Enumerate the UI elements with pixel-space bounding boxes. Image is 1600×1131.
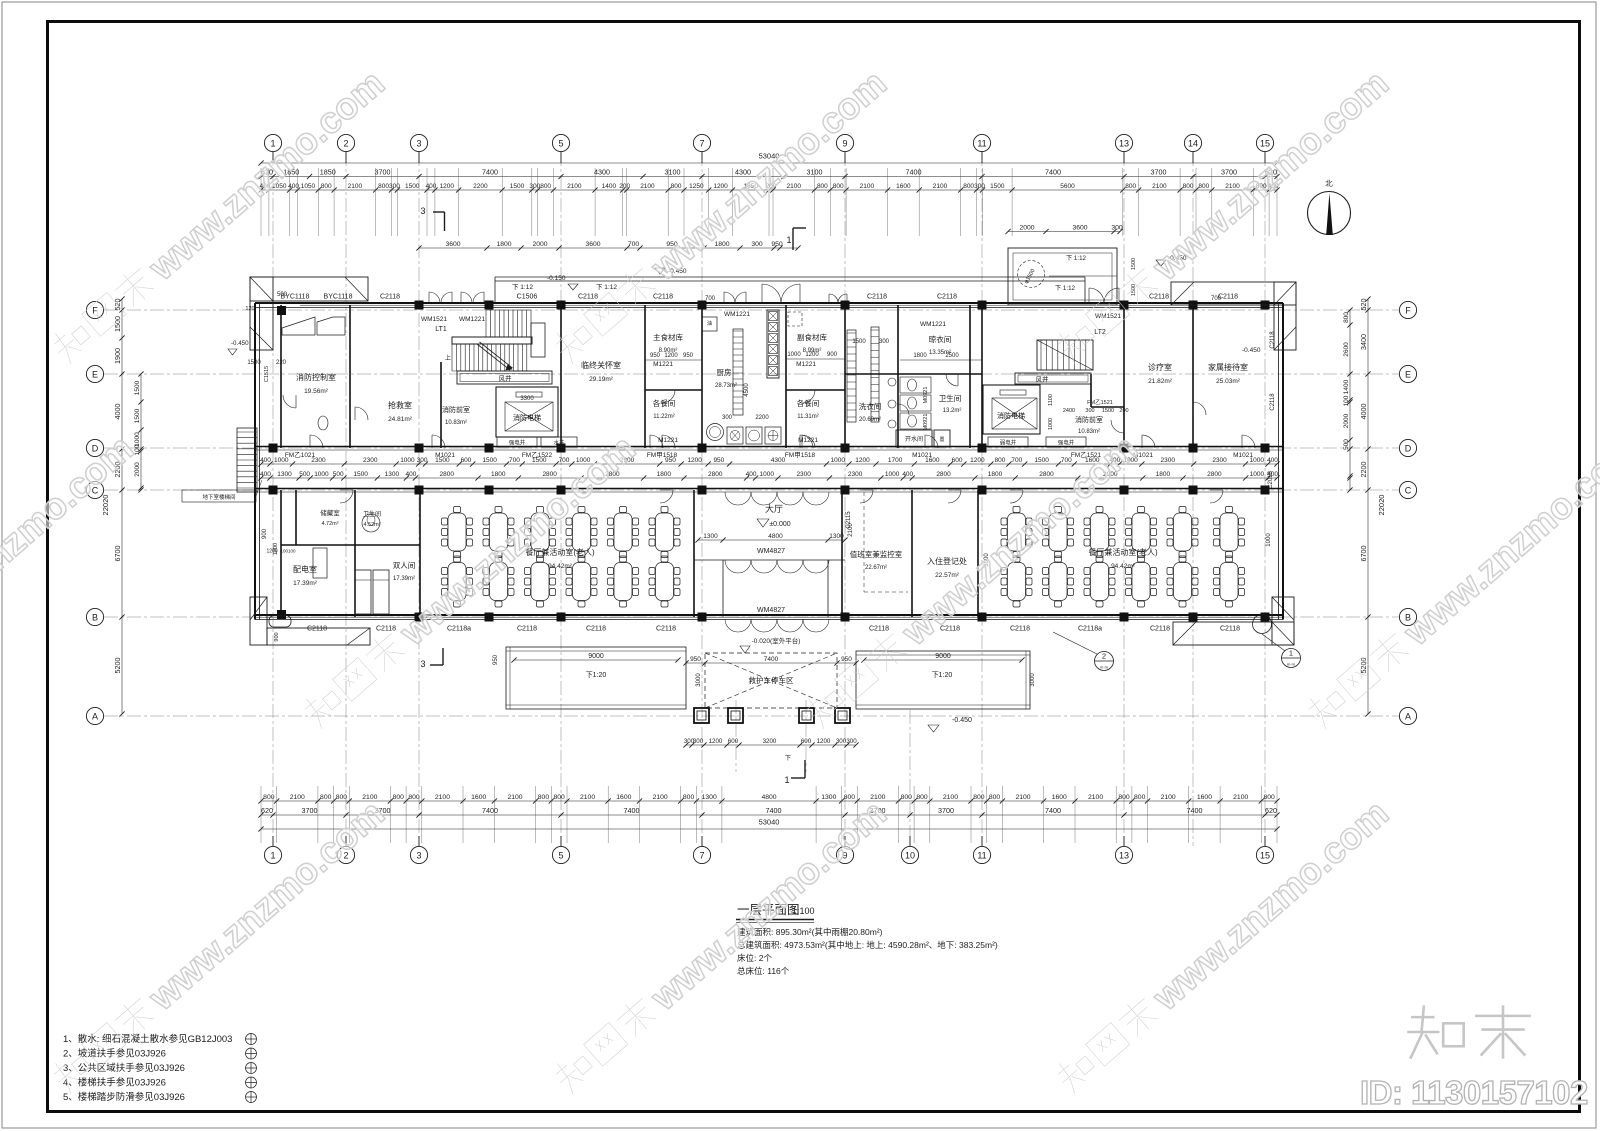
dimension chain terrace right <box>861 653 1024 662</box>
svg-text:1100: 1100 <box>1048 394 1054 406</box>
svg-text:1700: 1700 <box>888 457 903 464</box>
svg-text:11: 11 <box>977 139 986 149</box>
svg-text:副食材库: 副食材库 <box>797 332 827 342</box>
svg-text:400: 400 <box>902 471 913 478</box>
svg-text:2200: 2200 <box>1359 462 1368 478</box>
svg-text:M1221: M1221 <box>798 437 818 444</box>
svg-text:800: 800 <box>994 457 1005 464</box>
svg-text:FM乙1021: FM乙1021 <box>285 451 316 459</box>
svg-text:5: 5 <box>558 139 563 149</box>
svg-text:800: 800 <box>916 794 928 801</box>
dining room 1 tables <box>442 507 473 558</box>
svg-text:800: 800 <box>540 183 551 190</box>
svg-text:11.22m²: 11.22m² <box>653 414 675 420</box>
svg-text:消防前室: 消防前室 <box>442 405 470 414</box>
dimension chain top detail dims <box>258 183 1279 192</box>
small sink top-left room <box>318 416 328 430</box>
svg-text:3700: 3700 <box>375 168 391 177</box>
svg-text:950: 950 <box>841 656 852 663</box>
stair LT1 <box>452 310 545 371</box>
svg-text:4800: 4800 <box>761 794 776 801</box>
svg-text:C2118: C2118 <box>867 294 887 301</box>
svg-text:M1221: M1221 <box>796 361 816 368</box>
svg-text:1600: 1600 <box>616 794 631 801</box>
svg-text:2100: 2100 <box>1015 794 1030 801</box>
fire elevator right <box>983 385 1040 434</box>
svg-text:700: 700 <box>509 457 520 464</box>
svg-text:53040: 53040 <box>759 818 780 827</box>
svg-text:4000: 4000 <box>113 404 122 420</box>
svg-text:2300: 2300 <box>1212 457 1227 464</box>
svg-text:M1021: M1021 <box>1233 452 1253 459</box>
svg-text:3: 3 <box>416 851 421 861</box>
corner eave bottom-left <box>250 597 370 645</box>
svg-text:C2118: C2118 <box>937 294 957 301</box>
svg-text:C2118: C2118 <box>517 626 537 633</box>
svg-text:2100: 2100 <box>640 183 655 190</box>
porch column wrap bottom-left <box>269 616 291 628</box>
诊疗室 door <box>1111 420 1124 433</box>
svg-text:1500: 1500 <box>134 380 141 395</box>
svg-text:FM乙1521: FM乙1521 <box>1087 399 1113 406</box>
svg-text:C2118: C2118 <box>1149 294 1169 301</box>
svg-text:FM甲1518: FM甲1518 <box>647 451 678 459</box>
svg-text:1800: 1800 <box>913 353 927 359</box>
svg-text:WM1221: WM1221 <box>920 321 946 328</box>
svg-text:2、坡道扶手参见03J926: 2、坡道扶手参见03J926 <box>63 1048 166 1060</box>
interior partition walls: top room band <box>281 305 1193 448</box>
svg-text:-0.150: -0.150 <box>547 275 566 282</box>
svg-text:m-m: m-m <box>1287 662 1296 667</box>
svg-text:1900: 1900 <box>113 348 122 364</box>
svg-text:300: 300 <box>836 738 847 745</box>
svg-text:2000: 2000 <box>1019 225 1034 232</box>
svg-text:-0.450: -0.450 <box>1242 347 1261 354</box>
svg-text:29.19m²: 29.19m² <box>589 376 614 383</box>
svg-text:600: 600 <box>801 738 812 745</box>
svg-text:1: 1 <box>784 775 789 785</box>
svg-text:3700: 3700 <box>938 806 954 815</box>
svg-text:1200: 1200 <box>805 352 819 358</box>
svg-text:A: A <box>92 712 98 722</box>
svg-text:300: 300 <box>751 241 763 248</box>
svg-text:C2118: C2118 <box>1220 626 1240 633</box>
svg-text:下: 下 <box>785 755 791 762</box>
svg-text:900: 900 <box>262 528 268 539</box>
svg-text:2100: 2100 <box>860 183 875 190</box>
svg-text:临终关怀室: 临终关怀室 <box>581 360 621 370</box>
svg-text:1300: 1300 <box>702 794 717 801</box>
svg-text:4000: 4000 <box>1359 404 1368 420</box>
svg-text:1600: 1600 <box>471 794 486 801</box>
svg-text:10.83m²: 10.83m² <box>445 420 467 426</box>
svg-text:C1515: C1515 <box>264 366 270 382</box>
svg-text:15: 15 <box>1260 851 1270 861</box>
left terrace <box>506 647 686 709</box>
corner eave top-left <box>250 277 368 350</box>
svg-text:700: 700 <box>705 296 716 302</box>
svg-text:强电井: 强电井 <box>1058 439 1075 447</box>
svg-text:5600: 5600 <box>1060 183 1075 190</box>
fire elevator left <box>496 387 558 437</box>
svg-text:C2115: C2115 <box>846 511 852 529</box>
svg-text:各餐间: 各餐间 <box>797 398 820 408</box>
svg-text:1200: 1200 <box>970 457 985 464</box>
dimension chain bottom detail <box>258 794 1279 803</box>
canopy column axis stubs <box>735 700 737 772</box>
svg-text:1000: 1000 <box>787 352 801 358</box>
dining room 2 tables <box>1001 507 1032 558</box>
svg-text:6700: 6700 <box>1359 546 1368 562</box>
dimension chain corridor row2 <box>258 471 1279 480</box>
svg-text:开水间: 开水间 <box>905 435 923 443</box>
svg-text:3600: 3600 <box>445 241 460 248</box>
top dim extension lines <box>261 168 1277 236</box>
svg-text:M1221: M1221 <box>653 361 673 368</box>
svg-text:1250: 1250 <box>689 183 704 190</box>
svg-text:2100: 2100 <box>567 183 582 190</box>
svg-text:800: 800 <box>393 794 405 801</box>
svg-text:1600: 1600 <box>896 183 911 190</box>
svg-text:950: 950 <box>771 241 783 248</box>
svg-text:1: 1 <box>1289 649 1293 658</box>
svg-text:诊疗室: 诊疗室 <box>1148 362 1172 372</box>
svg-text:6700: 6700 <box>113 546 122 562</box>
svg-text:2300: 2300 <box>363 457 378 464</box>
svg-text:C2118: C2118 <box>380 294 400 301</box>
svg-text:15: 15 <box>1260 139 1270 149</box>
svg-text:22020: 22020 <box>1377 495 1386 516</box>
room doors inside kitchen block <box>662 390 675 403</box>
svg-text:19.56m²: 19.56m² <box>304 388 329 395</box>
svg-text:22.67m²: 22.67m² <box>865 565 887 571</box>
wardrobe strip <box>313 548 327 578</box>
dimension chain ramp top right <box>1005 225 1122 234</box>
svg-text:2: 2 <box>1102 652 1106 661</box>
svg-text:FM甲1518: FM甲1518 <box>785 451 816 459</box>
svg-text:400: 400 <box>1267 457 1278 464</box>
svg-text:1600: 1600 <box>1197 794 1212 801</box>
svg-text:4500: 4500 <box>744 383 750 397</box>
svg-text:1: 1 <box>786 235 791 245</box>
svg-text:5、楼梯踏步防滑参见03J926: 5、楼梯踏步防滑参见03J926 <box>63 1091 185 1103</box>
dimension chain top total <box>258 160 1279 165</box>
svg-text:950: 950 <box>493 654 499 665</box>
svg-text:800: 800 <box>1118 794 1130 801</box>
svg-text:620: 620 <box>1265 806 1277 815</box>
svg-text:C2118: C2118 <box>1270 331 1276 349</box>
lobby door arcs row 2 (entrance) <box>725 619 829 632</box>
svg-text:2800: 2800 <box>708 471 723 478</box>
canopy columns <box>694 708 850 723</box>
svg-text:2100: 2100 <box>507 794 522 801</box>
svg-text:17.39m²: 17.39m² <box>393 576 415 582</box>
svg-text:2100: 2100 <box>580 794 595 801</box>
svg-text:200: 200 <box>619 183 630 190</box>
svg-text:WM4827: WM4827 <box>757 548 785 555</box>
axis letter bubbles left/right <box>86 301 1416 724</box>
svg-text:C2118: C2118 <box>1010 626 1030 633</box>
svg-text:7400: 7400 <box>1187 806 1203 815</box>
svg-text:1200: 1200 <box>664 353 678 359</box>
detail bubble 1 <box>1282 649 1301 668</box>
svg-text:9: 9 <box>842 139 847 149</box>
svg-text:2300: 2300 <box>796 471 811 478</box>
svg-text:94.42m²: 94.42m² <box>1111 563 1136 570</box>
svg-text:17.39m²: 17.39m² <box>293 580 318 587</box>
svg-text:2800: 2800 <box>1207 471 1222 478</box>
vent shaft right (long) <box>1015 373 1091 384</box>
svg-text:2100: 2100 <box>653 794 668 801</box>
svg-text:300: 300 <box>722 415 733 421</box>
bathroom stalls <box>900 377 931 429</box>
exterior walls of main building <box>255 303 1283 620</box>
svg-text:4300: 4300 <box>594 168 610 177</box>
svg-text:风井: 风井 <box>499 374 513 383</box>
svg-text:1500: 1500 <box>1102 408 1114 414</box>
svg-text:餐厅兼活动室(老人): 餐厅兼活动室(老人) <box>1088 547 1158 557</box>
svg-text:300: 300 <box>846 738 857 745</box>
svg-text:3700: 3700 <box>1221 168 1237 177</box>
svg-text:500: 500 <box>299 471 310 478</box>
svg-text:9000: 9000 <box>935 653 951 660</box>
svg-text:800: 800 <box>1198 183 1209 190</box>
svg-text:500: 500 <box>1343 439 1350 450</box>
svg-text:C2118: C2118 <box>869 626 889 633</box>
svg-text:大厅: 大厅 <box>765 503 783 514</box>
svg-text:C2118: C2118 <box>376 626 396 633</box>
structural columns <box>269 301 1270 622</box>
ramp turning circle <box>1018 261 1045 288</box>
svg-text:800: 800 <box>989 794 1001 801</box>
bay windows (plan trapezoids) top-left <box>282 317 315 335</box>
svg-text:洗衣间: 洗衣间 <box>859 401 882 411</box>
svg-text:C2118: C2118 <box>1150 626 1170 633</box>
svg-text:1500: 1500 <box>852 339 866 345</box>
svg-text:300: 300 <box>1085 408 1094 414</box>
svg-text:C2118: C2118 <box>1270 393 1276 411</box>
svg-text:1500: 1500 <box>405 183 420 190</box>
svg-text:总建筑面积: 4973.53m²(其中地上: 地上: 459: 总建筑面积: 4973.53m²(其中地上: 地上: 4590.28m²、地下:… <box>737 940 998 950</box>
svg-text:21.82m²: 21.82m² <box>1148 378 1173 385</box>
svg-text:1800: 1800 <box>657 471 672 478</box>
svg-text:300: 300 <box>974 183 985 190</box>
svg-text:400: 400 <box>746 471 757 478</box>
svg-text:2400: 2400 <box>1063 408 1075 414</box>
top ramp strip (down 1:12) <box>495 277 1085 303</box>
svg-text:3000: 3000 <box>696 673 702 687</box>
svg-text:4800: 4800 <box>768 533 783 540</box>
svg-text:800: 800 <box>901 794 913 801</box>
svg-text:LT2: LT2 <box>1094 329 1106 336</box>
svg-text:C1506: C1506 <box>517 294 538 301</box>
svg-text:弱电井: 弱电井 <box>1000 439 1017 447</box>
svg-text:1600: 1600 <box>1052 794 1067 801</box>
svg-text:2100: 2100 <box>1088 794 1103 801</box>
svg-text:10: 10 <box>905 851 915 861</box>
svg-text:C2118: C2118 <box>578 294 598 301</box>
svg-text:家属接待室: 家属接待室 <box>1208 362 1248 372</box>
svg-text:300: 300 <box>389 183 400 190</box>
svg-text:-0.450: -0.450 <box>231 340 249 347</box>
dimension chain canopy <box>683 656 858 665</box>
note symbols <box>246 1034 257 1103</box>
svg-text:1000: 1000 <box>1250 471 1265 478</box>
svg-text:7400: 7400 <box>624 806 640 815</box>
svg-text:ID: 1130157102: ID: 1130157102 <box>1360 1074 1588 1111</box>
svg-text:9000: 9000 <box>588 653 604 660</box>
svg-text:M1021: M1021 <box>912 452 932 459</box>
svg-text:A: A <box>1405 712 1411 722</box>
svg-text:800: 800 <box>817 183 828 190</box>
svg-text:C2118: C2118 <box>653 294 673 301</box>
svg-text:E: E <box>1405 370 1411 380</box>
corner eave top-right <box>1171 282 1296 350</box>
svg-text:WM1221: WM1221 <box>459 316 485 323</box>
svg-text:2200: 2200 <box>473 183 488 190</box>
svg-text:消防前室: 消防前室 <box>1075 415 1103 424</box>
svg-text:500: 500 <box>333 471 344 478</box>
svg-text:4300: 4300 <box>771 457 786 464</box>
svg-text:800: 800 <box>963 183 974 190</box>
svg-text:800: 800 <box>321 183 332 190</box>
svg-text:100: 100 <box>1343 395 1350 406</box>
svg-text:1000: 1000 <box>134 432 141 447</box>
svg-text:WM4827: WM4827 <box>757 607 785 614</box>
svg-text:2800: 2800 <box>542 471 557 478</box>
entrance double doors on top wall <box>429 292 440 303</box>
svg-text:3: 3 <box>416 139 421 149</box>
svg-text:卫生间: 卫生间 <box>363 510 381 518</box>
svg-text:24.81m²: 24.81m² <box>388 416 413 423</box>
dimension chain lobby entr <box>695 533 847 542</box>
svg-text:LT1: LT1 <box>435 326 447 333</box>
svg-text:2100: 2100 <box>1161 794 1176 801</box>
svg-text:700: 700 <box>628 241 640 248</box>
basement stair outside left <box>237 428 257 492</box>
svg-text:晾衣间: 晾衣间 <box>929 334 952 344</box>
svg-text:800: 800 <box>1134 794 1146 801</box>
svg-text:600: 600 <box>461 457 472 464</box>
svg-text:800: 800 <box>320 794 332 801</box>
znzmo logo bottom right <box>1407 1005 1531 1058</box>
svg-text:300: 300 <box>529 183 540 190</box>
svg-text:C2118a: C2118a <box>447 626 471 633</box>
svg-text:4.72m²: 4.72m² <box>321 521 338 527</box>
svg-text:2: 2 <box>343 139 348 149</box>
svg-text:3600: 3600 <box>1072 225 1087 232</box>
svg-text:储藏室: 储藏室 <box>320 508 340 517</box>
svg-text:-0.450: -0.450 <box>952 717 972 724</box>
corridor walls <box>255 447 1283 493</box>
interior partition walls: bottom room band <box>281 490 978 617</box>
svg-text:13.2m²: 13.2m² <box>943 408 962 414</box>
svg-text:1000: 1000 <box>1048 418 1054 430</box>
svg-text:1200: 1200 <box>709 738 723 745</box>
svg-text:700: 700 <box>559 457 570 464</box>
svg-text:220: 220 <box>276 360 287 366</box>
dimension chain right big <box>1359 296 1370 716</box>
svg-text:2500: 2500 <box>945 353 959 359</box>
svg-text:200: 200 <box>1119 408 1128 414</box>
svg-text:2300: 2300 <box>848 471 863 478</box>
svg-text:3: 3 <box>420 206 425 216</box>
svg-text:WM1221: WM1221 <box>724 311 750 318</box>
kitchen stove column (X boxes) <box>767 310 779 378</box>
svg-text:下1:20: 下1:20 <box>586 671 607 679</box>
svg-text:M1221: M1221 <box>658 437 678 444</box>
svg-text:1500: 1500 <box>990 183 1005 190</box>
svg-text:上: 上 <box>445 354 451 362</box>
entrance canopy (ambulance area) <box>705 653 837 708</box>
dimension chain bottom total <box>258 826 1279 831</box>
svg-text:1300: 1300 <box>277 471 292 478</box>
svg-text:总床位: 116个: 总床位: 116个 <box>737 966 790 976</box>
svg-text:厨房: 厨房 <box>717 367 732 377</box>
vent shaft 風井 left <box>457 371 552 384</box>
svg-text:800: 800 <box>263 794 275 801</box>
svg-text:2600: 2600 <box>1343 342 1350 357</box>
svg-text:M0921: M0921 <box>923 387 929 404</box>
svg-text:下 1:12: 下 1:12 <box>1055 285 1076 292</box>
svg-text:1500: 1500 <box>482 457 497 464</box>
svg-text:配电室: 配电室 <box>293 564 317 574</box>
svg-text:下 1:12: 下 1:12 <box>512 283 533 291</box>
svg-text:13: 13 <box>1119 139 1129 149</box>
svg-text:7400: 7400 <box>764 656 779 663</box>
right terrace <box>856 651 1030 709</box>
svg-text:WM1521: WM1521 <box>1095 313 1121 320</box>
svg-text:C2018: C2018 <box>1268 471 1274 489</box>
svg-text:950: 950 <box>683 353 694 359</box>
svg-text:700: 700 <box>1011 457 1022 464</box>
svg-text:E: E <box>92 370 98 380</box>
svg-text:2100: 2100 <box>1233 794 1248 801</box>
svg-text:C2118: C2118 <box>586 626 606 633</box>
svg-text:1200: 1200 <box>273 543 279 555</box>
svg-text:M1021: M1021 <box>435 452 455 459</box>
svg-text:1850: 1850 <box>320 168 336 177</box>
svg-text:强电井: 强电井 <box>509 439 526 447</box>
hot water room 开水间 <box>896 430 932 447</box>
svg-text:300: 300 <box>417 457 428 464</box>
svg-text:值班室兼监控室: 值班室兼监控室 <box>850 549 903 559</box>
svg-text:520: 520 <box>1359 299 1368 311</box>
svg-text:1200: 1200 <box>855 457 870 464</box>
svg-text:800: 800 <box>408 794 420 801</box>
svg-text:m-m: m-m <box>1100 665 1109 670</box>
svg-text:900: 900 <box>274 632 280 641</box>
dimension chain canopy cols <box>683 738 858 747</box>
svg-text:2000: 2000 <box>134 462 141 477</box>
svg-text:800: 800 <box>553 794 565 801</box>
svg-text:2100: 2100 <box>435 794 450 801</box>
svg-text:下 1:12: 下 1:12 <box>1066 255 1087 262</box>
svg-text:2800: 2800 <box>1039 471 1054 478</box>
svg-text:风井: 风井 <box>1036 375 1050 384</box>
svg-text:1000: 1000 <box>314 471 329 478</box>
svg-text:800: 800 <box>1125 183 1136 190</box>
svg-text:F: F <box>1405 306 1411 316</box>
svg-text:5: 5 <box>558 851 563 861</box>
svg-text:7400: 7400 <box>1045 806 1061 815</box>
svg-text:C2118: C2118 <box>656 626 676 633</box>
svg-text:3、公共区域扶手参见03J926: 3、公共区域扶手参见03J926 <box>63 1062 185 1074</box>
svg-text:1800: 1800 <box>1156 471 1171 478</box>
svg-text:3100: 3100 <box>665 168 681 177</box>
dimension chain left small <box>134 371 143 492</box>
svg-text:11.31m²: 11.31m² <box>797 414 819 420</box>
